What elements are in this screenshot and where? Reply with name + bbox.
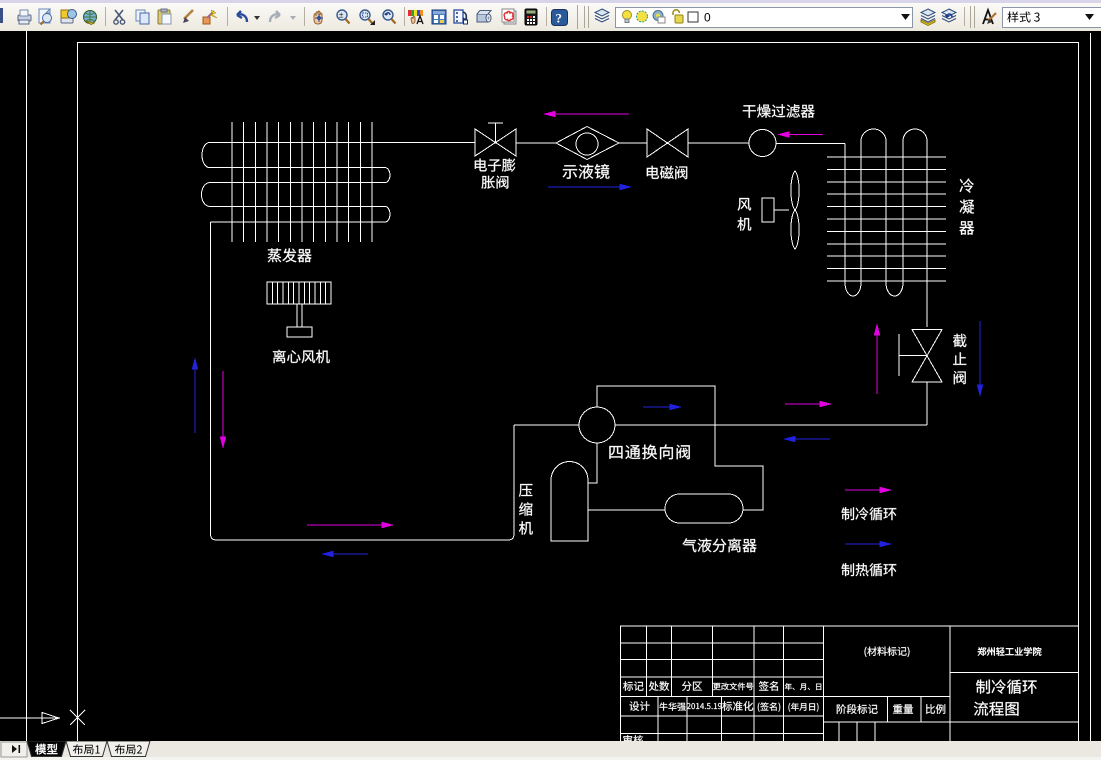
toolbar icon: paste [158, 9, 171, 24]
toolbar icon: zoom realtime [337, 10, 350, 24]
flow arrow [874, 325, 879, 394]
layout tab bar [0, 741, 1101, 757]
undo dropdown arrow [254, 16, 260, 20]
title block text 设计 [630, 701, 650, 711]
flow arrow [323, 551, 368, 556]
flow arrow [779, 132, 823, 137]
title block text 2014.5.19 [687, 703, 722, 709]
unlock padlock [673, 10, 683, 23]
main reversing line [615, 424, 927, 426]
fan motor box 风机 [762, 198, 774, 222]
stop valve 截止阀 [912, 330, 942, 383]
tab nav button [1, 742, 27, 757]
label 风机 (vertical) [737, 198, 751, 231]
title block text 比例 [926, 704, 945, 714]
wire: four-way valve left to riser [514, 424, 579, 426]
toolbar icon: help [552, 10, 568, 26]
title block text (签名) [758, 702, 780, 711]
toolbar icon: copy [136, 10, 149, 24]
label 压缩机 (vertical) [519, 484, 533, 535]
wire: valve to sight glass [516, 142, 556, 144]
toolbar icon: undo [237, 11, 247, 22]
title block text 牛华强 [660, 702, 686, 710]
wire: solenoid valve to filter drier [688, 142, 749, 144]
condenser coil 冷凝器 [845, 129, 927, 327]
toolbar icon: quickcalc [525, 9, 537, 25]
title block text 重量 [893, 704, 913, 713]
combobox arrow [1085, 14, 1094, 20]
label 制热循环 [842, 563, 897, 576]
flow arrow [545, 111, 629, 116]
wire: four-way valve bottom to compressor [588, 443, 597, 483]
flow arrow [192, 359, 197, 433]
title block text 流程图(title) [974, 702, 1019, 716]
label 气液分离器 [682, 538, 756, 552]
separator [546, 7, 547, 26]
label 四通换向阀 [609, 445, 689, 460]
centrifugal fan 离心风机 symbol [267, 282, 331, 337]
toolbar icon: print preview [39, 9, 52, 25]
title block text 阶段标记 [837, 704, 878, 714]
title block text (材料标记) [865, 647, 910, 657]
UCS axis line with arrowhead [0, 713, 59, 724]
accumulator 气液分离器 [665, 494, 743, 523]
plot gear [653, 11, 665, 24]
title block text 郑州轻工业学院 [978, 647, 1042, 656]
electronic expansion valve stem [488, 123, 503, 143]
condenser fins [827, 157, 946, 281]
toolbar icon: publish [61, 10, 77, 24]
main toolbar [0, 3, 1101, 32]
toolbar grip [970, 6, 971, 28]
redo dropdown arrow [290, 16, 296, 20]
toolbar icon: layer previous [942, 9, 956, 22]
fan blades [791, 171, 799, 249]
wire: filter drier to condenser [776, 143, 845, 145]
wire: evaporator outlet down and right to riser [211, 222, 515, 540]
toolbar icon: layers manager [595, 9, 609, 22]
toolbar icon: properties [408, 10, 423, 24]
toolbar icon: pan hand [314, 11, 323, 24]
label 离心风机 [273, 350, 330, 364]
toolbar icon: sheet set manager [477, 11, 491, 23]
wire: compressor suction from accumulator [588, 509, 665, 511]
left screen vertical line [26, 31, 28, 741]
flow arrow [785, 436, 830, 441]
title block text 审核 [623, 735, 643, 745]
filter drier 干燥过滤器 [749, 130, 776, 157]
flow arrow [220, 371, 225, 447]
label 制冷循环 [842, 507, 897, 520]
toolbar icon: zoom previous [383, 10, 396, 24]
layer on lightbulb [623, 11, 632, 23]
toolbar boundary separator [577, 5, 578, 29]
toolbar icon: make layer current [921, 9, 935, 26]
label 蒸发器 [268, 248, 312, 262]
title block text 签名 [759, 681, 778, 691]
style name 样式 3 [1007, 11, 1039, 22]
solenoid valve 电磁阀 [647, 129, 688, 157]
four-way reversing valve 四通换向阀 [579, 407, 615, 443]
label 干燥过滤器 [743, 104, 815, 118]
label 冷凝器 (vertical) [960, 179, 975, 235]
electronic expansion valve 电子膨胀阀 [475, 129, 516, 156]
flow arrow [785, 401, 830, 406]
label 示液镜 [563, 164, 610, 179]
separator [227, 7, 228, 26]
flow arrow [977, 321, 982, 395]
combobox arrow [901, 14, 910, 20]
title block text 年月日 [785, 683, 821, 690]
top window strip [0, 0, 1101, 3]
toolbar icon: etransmit globe [84, 11, 97, 25]
title block text 标记 [623, 681, 643, 691]
toolbar icon: markup set manager [502, 9, 516, 24]
toolbar icon: cut scissors [114, 10, 125, 24]
label 电磁阀 [647, 166, 687, 179]
crosshair cursor [70, 710, 85, 725]
toolbar icon: designcenter [432, 10, 446, 24]
toolbar grip [584, 6, 585, 28]
toolbar icon: redo (disabled) [270, 11, 280, 22]
wire: stop valve to main line [926, 382, 928, 425]
partial clipped icon at left edge [0, 8, 3, 23]
separator [105, 7, 106, 26]
flow arrow [307, 522, 392, 527]
title block text 标准化 [722, 701, 753, 711]
sight glass 示液镜 [556, 127, 619, 160]
toolbar icon: tool palettes [454, 10, 468, 24]
title block text 更改文件号 [713, 683, 753, 691]
toolbar icon: match properties [203, 10, 217, 24]
layer color square [688, 12, 698, 22]
evaporator finned coil 蒸发器 [232, 122, 372, 242]
title block text 制冷循环(title) [976, 680, 1037, 694]
layer control combobox [615, 7, 913, 28]
toolbar icon: print [18, 10, 31, 24]
tab 布局2 [107, 741, 150, 757]
toolbar icon: text style [983, 10, 996, 24]
stop valve stem [899, 334, 927, 376]
fan shaft [774, 209, 789, 211]
flow arrow [845, 487, 890, 492]
compressor 压缩机 [551, 462, 588, 542]
wire: sight glass to solenoid valve [619, 142, 647, 144]
title block text 分区 [682, 681, 702, 691]
flow arrow [548, 184, 630, 189]
title block text 处数 [649, 681, 669, 691]
outer right vertical line [1090, 33, 1092, 741]
separator [304, 7, 305, 26]
title block grid [621, 626, 1079, 741]
separator [404, 7, 405, 26]
toolbar icon: zoom window [360, 10, 375, 25]
tab 模型 (active) [27, 741, 66, 757]
toolbar icon: brush [183, 10, 193, 23]
tab 布局1 [66, 741, 107, 757]
flow arrow [845, 541, 890, 546]
label 胀阀 [481, 176, 508, 189]
title block text (年月日) [789, 703, 819, 712]
style combobox [1002, 7, 1101, 28]
label 截止阀 (vertical) [953, 334, 966, 384]
label 电子膨 [475, 159, 515, 172]
wire: four-way valve top loop to accumulator [597, 386, 763, 510]
freeze sun [637, 11, 648, 22]
separator [964, 7, 965, 26]
flow arrow [643, 404, 680, 409]
